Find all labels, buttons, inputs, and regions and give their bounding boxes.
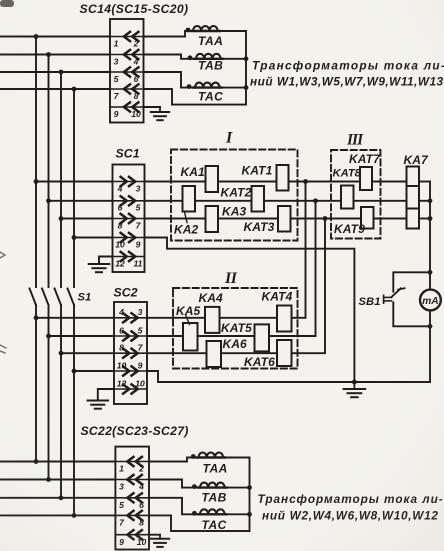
SC1 pins 4-3 [114, 177, 144, 193]
wire SC1 pin 9 return [145, 238, 355, 383]
relay KAT7 [349, 152, 381, 190]
node CT bus junctions (top) [244, 56, 249, 61]
wire row 2 SC1 to KA7 [145, 200, 407, 202]
connector SC1 [113, 165, 145, 273]
note: line CTs W1..W13 [250, 59, 444, 89]
SC22 pins 1-2 [116, 457, 148, 474]
switch SB1 branch [359, 272, 431, 326]
node rail junctions [428, 198, 433, 203]
wire riser phase 2 to group II [147, 201, 316, 336]
node ground junction [352, 380, 357, 385]
node SB1 branch junctions [428, 270, 433, 275]
wire feeders to SC22 [0, 461, 115, 463]
ground at SC2 pin 12 [98, 389, 114, 400]
wire common rail down [429, 182, 431, 273]
node CT bus junctions (bottom) [247, 485, 252, 490]
wire row 1 SC1 to KA7 [145, 181, 407, 183]
current transformer TAC (top) [144, 72, 247, 104]
node SC22 input taps [34, 459, 39, 464]
SC1 pins 8-7 [114, 214, 144, 230]
connector SC2 [114, 302, 147, 404]
switch S1 [30, 289, 37, 306]
group III frame [331, 150, 381, 239]
wire CT return to pin 8 (bottom) [149, 458, 250, 532]
relay KA4 [199, 291, 224, 333]
wire row 3 SC1 to KA7 [145, 218, 407, 220]
relay KA1 [181, 165, 219, 192]
ground at SC1 pin 12 [99, 257, 113, 263]
group I frame [171, 150, 298, 241]
SC14 pins 9-10 [111, 102, 143, 119]
ground at SC14 pin 10 [144, 106, 161, 108]
relay KAT9 [334, 207, 374, 236]
current transformer TAB (top) [144, 54, 247, 73]
SC2 pins 8-7 [115, 343, 146, 358]
SC22 pins 5-6 [116, 493, 148, 510]
SC2 pins 6-5 [115, 325, 146, 340]
wire bus taps to SC1 [36, 181, 113, 183]
wire rail to ground bus [429, 326, 431, 382]
SC14 pins 5-6 [111, 67, 143, 84]
relay KAT6 [244, 340, 292, 369]
node bus taps on feeders [34, 34, 39, 39]
SC2 pins 10-9 [115, 360, 146, 375]
wire bus taps to SC2 [36, 317, 114, 319]
wire vertical bus C [60, 72, 62, 287]
relay KAT2 [221, 186, 265, 212]
SC14 pins 3-4 [111, 50, 143, 67]
SC22 pins 9-10 [116, 530, 148, 547]
wire KA7 to common rail [419, 181, 430, 183]
ground main [353, 382, 355, 389]
SC2 pins 12-10 [115, 378, 146, 393]
node riser taps [303, 179, 308, 184]
current transformer TAA (bottom) [149, 452, 250, 475]
node SC1 input taps [34, 179, 39, 184]
relay KAT5 [221, 321, 269, 351]
relay KAT1 [242, 164, 289, 191]
current transformer TAB (bottom) [149, 480, 250, 505]
SC1 pins 6-5 [114, 196, 144, 212]
wire vertical bus B [48, 55, 50, 288]
paper marks [0, 252, 5, 258]
wire riser phase 1 to group II [147, 182, 306, 318]
meter mA [420, 272, 441, 326]
wire riser phase 3 to group II [147, 219, 325, 354]
relay KA5 [176, 304, 201, 351]
relay KA6 [207, 337, 248, 367]
relay KAT4 [262, 290, 293, 332]
ground at SC22 pin 10 [149, 534, 160, 536]
wire CT return to pin 8 (top) [144, 31, 247, 105]
connector SC22 [115, 447, 149, 550]
group II frame [173, 288, 298, 369]
note: line CTs W2..W12 [258, 492, 444, 523]
relay KAT8 [333, 168, 362, 209]
SC1 pins 10-9 [114, 233, 144, 249]
SC2 pins 4-3 [115, 307, 146, 322]
wire SC2 pin 9 return / ground bus [147, 371, 430, 382]
connector SC14 [110, 19, 144, 123]
wire phase feeders to SC14 [0, 36, 110, 38]
SC1 pins 12-11 [114, 252, 144, 268]
relay KA7 coil stack [407, 167, 420, 229]
SC14 pins 1-2 [111, 32, 143, 49]
current transformer TAA (top) [144, 26, 247, 48]
node SC2 input taps [34, 315, 39, 320]
relay KAT3 [244, 206, 291, 234]
SC22 pins 7-8 [116, 511, 148, 528]
relay KA3 [206, 205, 247, 233]
SC22 pins 3-4 [116, 475, 148, 492]
wire vertical bus D [73, 89, 75, 287]
SC14 pins 7-8 [111, 84, 143, 101]
wire vertical bus A [35, 37, 37, 288]
relay KA2 [174, 186, 199, 237]
current transformer TAC (bottom) [149, 498, 250, 532]
